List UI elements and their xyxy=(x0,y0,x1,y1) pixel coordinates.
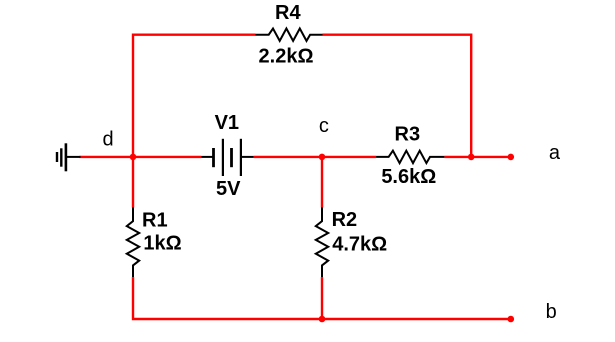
bottom junction dot below R2 xyxy=(319,316,326,323)
wire: top-right horizontal from R4 + right vertical down to node near a xyxy=(323,35,472,157)
ground xyxy=(57,143,81,171)
wire: ground to battery V1 through node d xyxy=(80,156,202,158)
svg-text:1kΩ: 1kΩ xyxy=(143,232,181,254)
wire: R3 to terminal a xyxy=(444,156,510,158)
battery V1 xyxy=(201,139,254,176)
svg-text:R4: R4 xyxy=(275,2,301,24)
node c junction dot xyxy=(319,154,326,161)
svg-text:a: a xyxy=(549,142,561,164)
svg-text:d: d xyxy=(102,128,113,150)
wire: battery V1 to R3 through node c xyxy=(254,156,376,158)
resistor R3 xyxy=(376,151,444,163)
svg-text:V1: V1 xyxy=(215,112,239,134)
wire: R1 down, bottom horizontal to terminal b xyxy=(133,277,511,319)
terminal dot b xyxy=(508,316,515,323)
resistor R2 xyxy=(316,208,328,278)
node d junction dot xyxy=(130,154,137,161)
terminal dot a xyxy=(508,154,515,161)
junction dot right of R3 xyxy=(468,154,475,161)
resistor R4 xyxy=(256,29,323,41)
svg-text:R3: R3 xyxy=(395,123,421,145)
svg-text:5.6kΩ: 5.6kΩ xyxy=(381,166,436,188)
wire: node c down to R2 xyxy=(321,157,323,208)
svg-text:5V: 5V xyxy=(216,178,241,200)
wire: left vertical + top-left horizontal to R4 xyxy=(133,35,256,157)
wire: node d down to R1 xyxy=(132,157,134,208)
svg-text:4.7kΩ: 4.7kΩ xyxy=(332,234,387,256)
resistor R1 xyxy=(127,208,139,278)
wire: R2 down to bottom junction xyxy=(321,277,323,319)
svg-text:R1: R1 xyxy=(142,209,168,231)
svg-text:R2: R2 xyxy=(332,209,358,231)
svg-text:2.2kΩ: 2.2kΩ xyxy=(259,45,314,67)
svg-text:c: c xyxy=(319,115,329,137)
svg-text:b: b xyxy=(546,301,557,323)
